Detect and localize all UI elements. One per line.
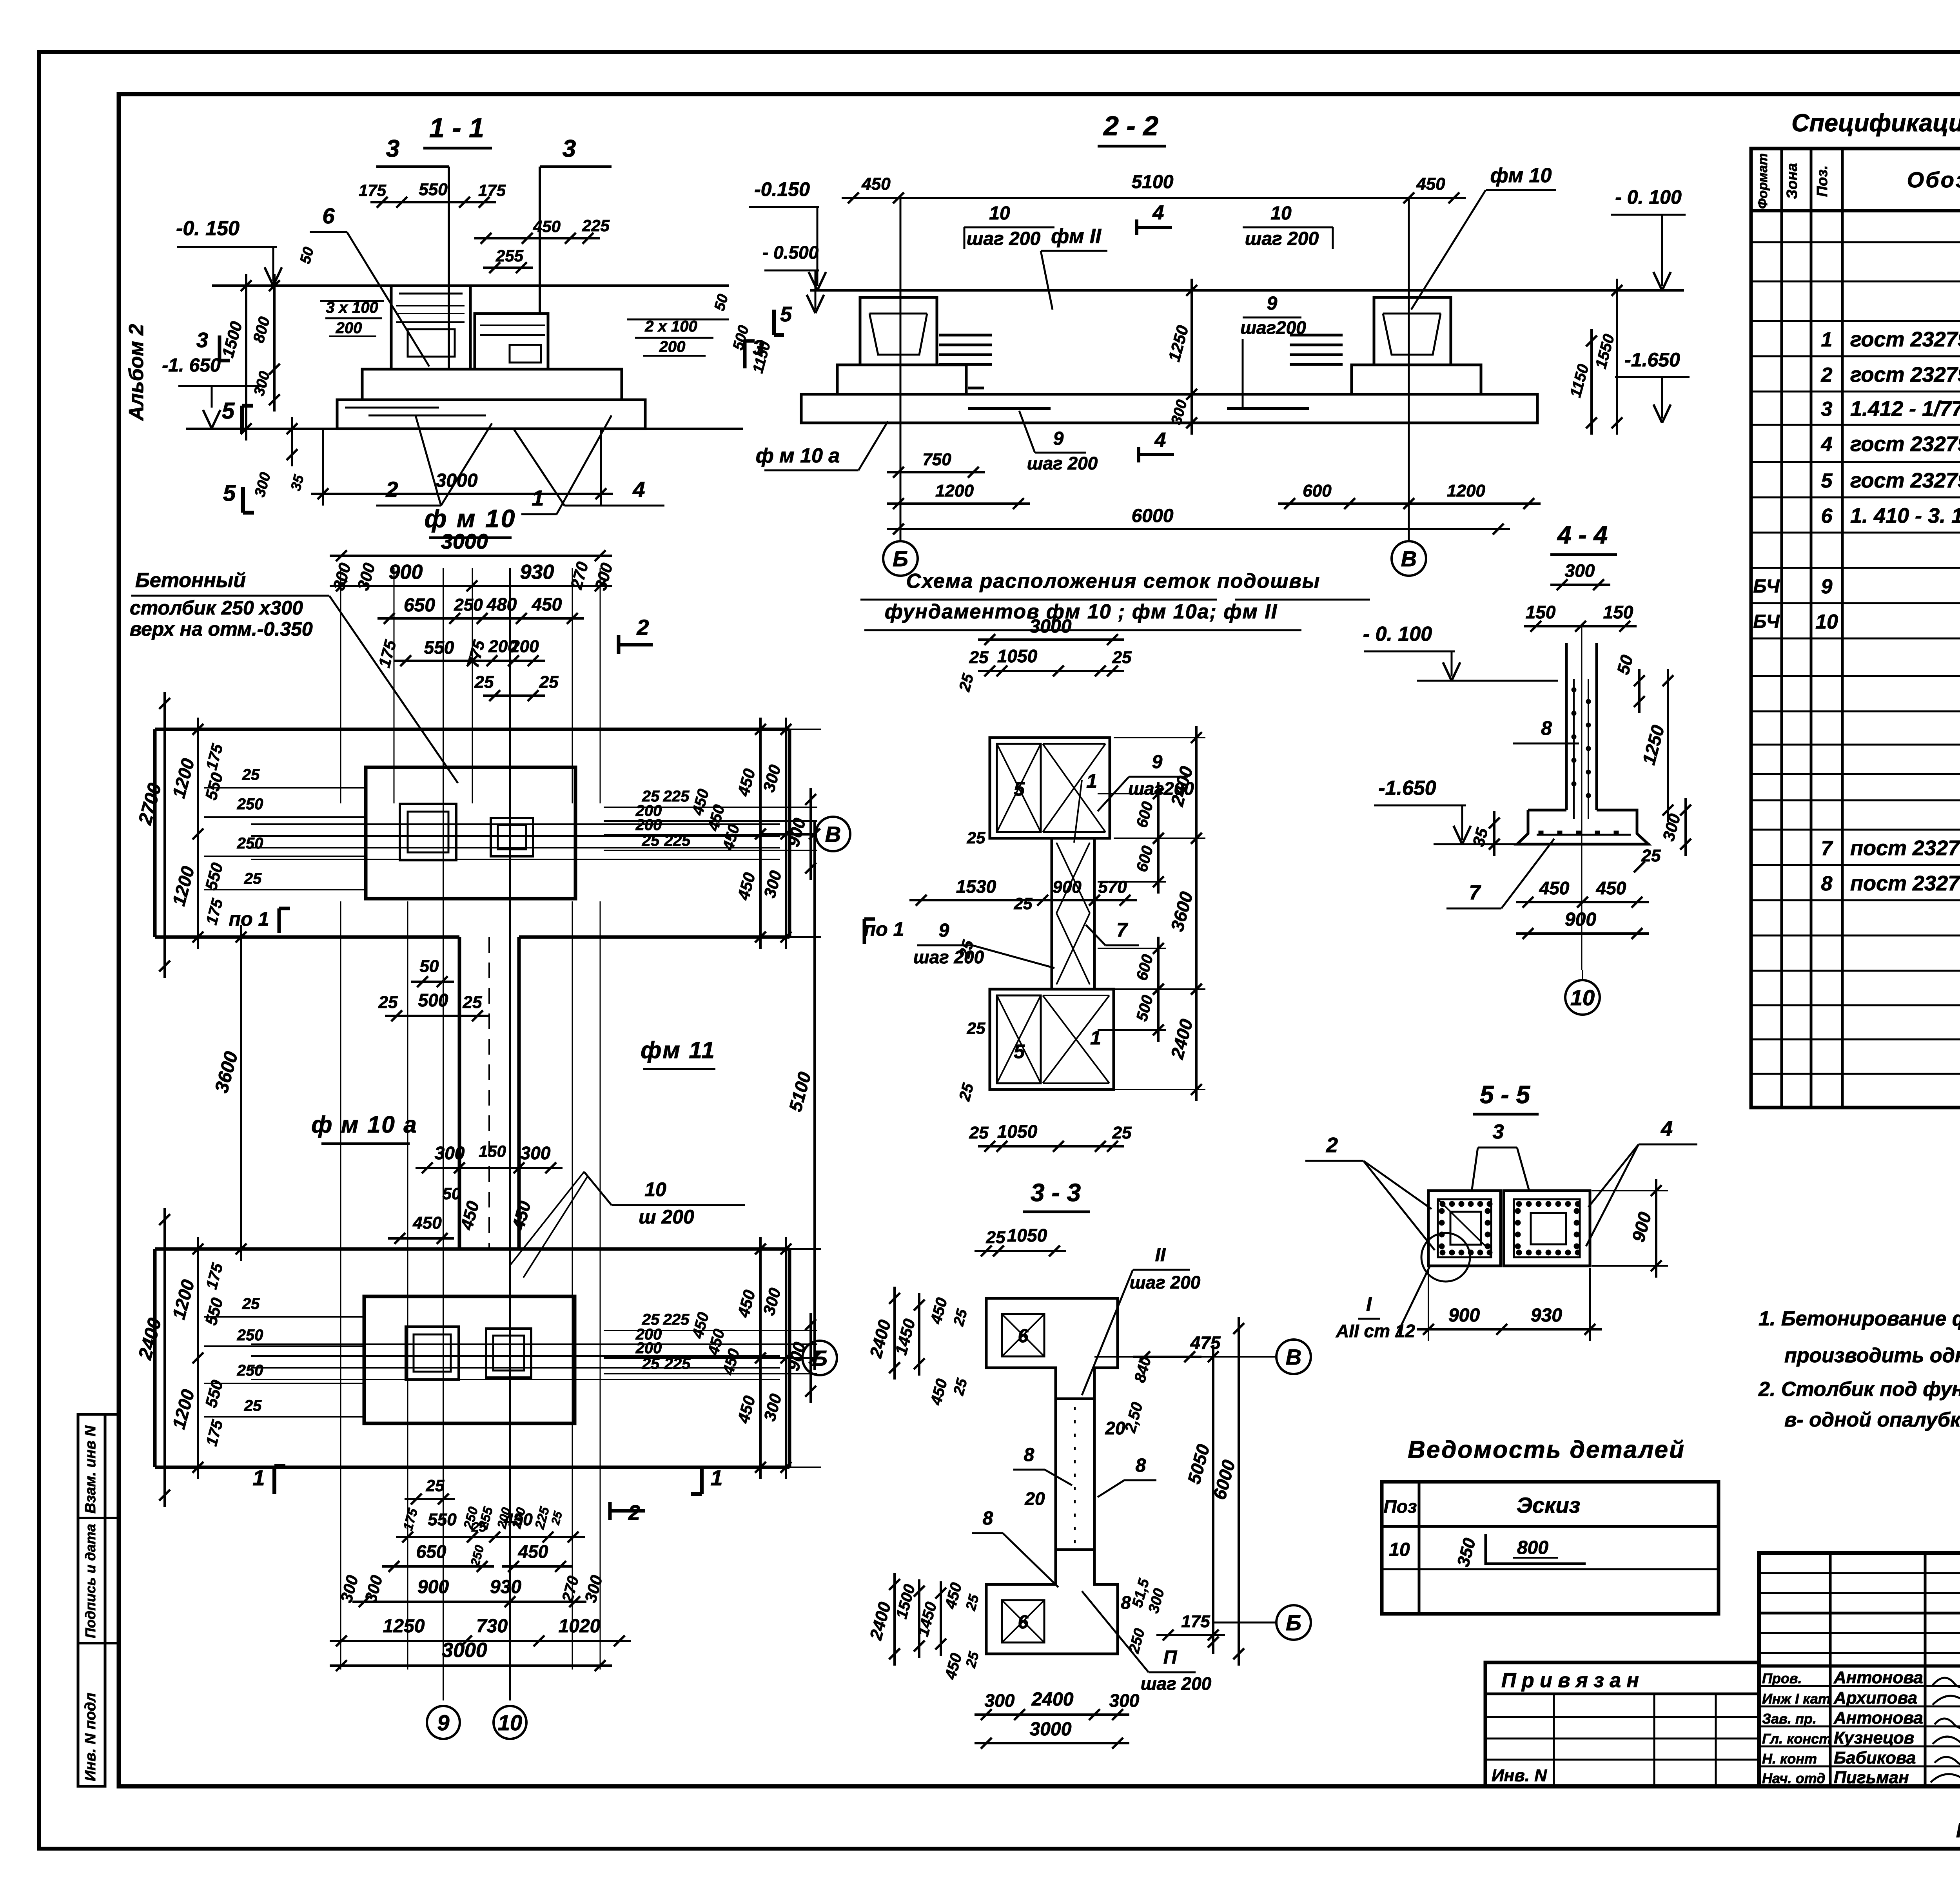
- schema dim 3000: [978, 638, 1124, 641]
- section 3-3 left dims upper: [893, 1287, 896, 1380]
- svg-text:Пигьман: Пигьман: [1834, 1768, 1909, 1787]
- svg-text:25: 25: [1112, 1123, 1132, 1142]
- svg-text:гост 23279 - 85: гост 23279 - 85: [1850, 432, 1960, 456]
- spec table grid: [1751, 149, 1960, 1108]
- svg-text:2: 2: [1821, 364, 1833, 386]
- section 2-2 dim 1200 left: [887, 502, 1030, 505]
- svg-text:250: 250: [237, 1362, 263, 1379]
- svg-text:300: 300: [1109, 1690, 1140, 1711]
- svg-text:3000: 3000: [436, 470, 478, 491]
- svg-text:3: 3: [386, 135, 399, 162]
- svg-text:25: 25: [1014, 894, 1033, 913]
- svg-text:Бетонный: Бетонный: [135, 569, 246, 592]
- title block name rows: [1759, 1685, 1960, 1687]
- svg-text:225: 225: [663, 788, 690, 805]
- svg-text:Инж I кат: Инж I кат: [1762, 1691, 1831, 1707]
- plan upper right column glass: [491, 818, 533, 856]
- svg-text:Зав. пр.: Зав. пр.: [1762, 1711, 1817, 1727]
- svg-text:8: 8: [1024, 1445, 1034, 1465]
- svg-text:25: 25: [967, 1019, 985, 1037]
- svg-text:25: 25: [969, 1123, 989, 1142]
- svg-text:В: В: [1286, 1345, 1301, 1369]
- svg-text:4: 4: [1154, 429, 1166, 451]
- section 1-1 footing slab: [337, 400, 645, 429]
- section 1-1 right pier: [475, 314, 548, 369]
- svg-text:450: 450: [1539, 878, 1570, 898]
- svg-text:П: П: [1163, 1647, 1178, 1668]
- svg-text:1: 1: [532, 486, 544, 510]
- svg-text:шаг 200: шаг 200: [1130, 1272, 1201, 1293]
- plan lower band mesh lines: [251, 1343, 780, 1345]
- svg-text:10: 10: [1570, 985, 1595, 1010]
- section 2-2 top dims 450 5100 450: [842, 197, 1466, 199]
- svg-text:-1.650: -1.650: [1624, 349, 1680, 371]
- svg-text:200: 200: [659, 338, 686, 355]
- svg-text:2400: 2400: [1031, 1689, 1074, 1710]
- svg-text:9: 9: [1152, 752, 1163, 772]
- svg-text:9: 9: [939, 920, 949, 941]
- schema dims right side: [1195, 726, 1198, 850]
- svg-text:8: 8: [1136, 1455, 1146, 1476]
- svg-text:2: 2: [1326, 1133, 1338, 1157]
- svg-text:Эскиз: Эскиз: [1517, 1493, 1581, 1517]
- svg-text:1250: 1250: [383, 1616, 425, 1637]
- svg-text:450: 450: [1596, 878, 1626, 898]
- svg-text:I: I: [1366, 1293, 1372, 1315]
- svg-text:Б: Б: [1286, 1610, 1301, 1635]
- svg-text:II: II: [1155, 1245, 1166, 1265]
- plan axis lines 9 10: [443, 568, 444, 1700]
- section 2-2 axis line V right: [1408, 198, 1410, 541]
- section 5-5 right block: [1504, 1191, 1590, 1266]
- section 2-2 dim 6000: [887, 528, 1510, 530]
- svg-text:10: 10: [989, 203, 1010, 224]
- svg-text:Б: Б: [893, 546, 908, 571]
- section 3-3 bottom block: [986, 1550, 1118, 1654]
- plan right dims lower band: [604, 1330, 817, 1331]
- svg-text:450: 450: [1416, 174, 1445, 194]
- plan long extension lines: [340, 568, 341, 803]
- section 1-1 column body: [391, 286, 470, 369]
- svg-text:Инв. N: Инв. N: [1492, 1766, 1547, 1785]
- section 1-1 mesh label 3x100 / 200: [320, 300, 384, 302]
- section 2-2 bottom slab: [801, 394, 1537, 423]
- plan axis circle V right: [760, 833, 816, 835]
- svg-text:900: 900: [1053, 877, 1082, 897]
- left margin stamp strip: [78, 1414, 105, 1786]
- svg-text:шаг 200: шаг 200: [1141, 1673, 1212, 1694]
- svg-text:25: 25: [642, 1355, 660, 1372]
- svg-text:450: 450: [412, 1213, 442, 1233]
- svg-text:БЧ: БЧ: [1753, 576, 1780, 597]
- svg-text:1200: 1200: [935, 481, 974, 500]
- svg-text:3: 3: [563, 135, 576, 162]
- svg-text:Гл. конст: Гл. конст: [1762, 1731, 1831, 1747]
- privyazan table: [1485, 1662, 1759, 1786]
- svg-text:6: 6: [322, 203, 335, 228]
- section 2-2 axis circle B: [883, 541, 918, 576]
- svg-text:Спецификация элементов монолит: Спецификация элементов монолитной констр…: [1791, 109, 1960, 137]
- svg-text:150: 150: [1526, 602, 1556, 622]
- svg-text:5: 5: [780, 303, 792, 326]
- svg-text:1: 1: [1086, 770, 1097, 792]
- svg-text:- 0. 100: - 0. 100: [1363, 623, 1432, 645]
- svg-text:25: 25: [242, 766, 260, 783]
- svg-text:пост 23279 - 85: пост 23279 - 85: [1850, 836, 1960, 860]
- svg-text:225: 225: [582, 216, 610, 235]
- svg-text:25: 25: [642, 832, 660, 849]
- svg-text:25: 25: [969, 648, 989, 667]
- section 4-4 dim 1250: [1667, 669, 1669, 822]
- section 2-2 axis line B left: [900, 198, 902, 541]
- svg-text:10: 10: [498, 1710, 522, 1735]
- svg-text:Инв. N подл: Инв. N подл: [82, 1693, 99, 1781]
- plan dim 5100 right: [813, 822, 816, 1370]
- schema upper left crossed mesh 5: [997, 744, 1041, 832]
- svg-text:150: 150: [479, 1142, 506, 1160]
- schema middle strip: [1052, 838, 1094, 989]
- plan lower left column glass: [406, 1327, 459, 1380]
- svg-text:шаг200: шаг200: [1240, 317, 1306, 338]
- svg-text:175: 175: [478, 181, 506, 199]
- section 2-2 axis circle V: [1392, 541, 1426, 576]
- svg-text:25: 25: [474, 673, 494, 692]
- svg-text:В: В: [1401, 546, 1417, 571]
- svg-text:500: 500: [418, 990, 448, 1010]
- plan lower band FM10a: [155, 1247, 789, 1251]
- svg-text:1020: 1020: [559, 1616, 601, 1637]
- plan dim row 550 200 200: [394, 660, 545, 662]
- svg-text:25: 25: [426, 1476, 445, 1495]
- svg-text:Антонова: Антонова: [1833, 1708, 1923, 1728]
- svg-text:3000: 3000: [441, 530, 488, 553]
- svg-text:570: 570: [1098, 877, 1127, 897]
- svg-text:900: 900: [1565, 909, 1596, 930]
- section 2-2 vertical dim 1250 300: [1191, 279, 1193, 435]
- section 5-5 rebar dots right: [1516, 1201, 1522, 1207]
- section 4-4 dim 300 right: [1684, 798, 1687, 856]
- section 5-5 dim 900 right: [1655, 1179, 1657, 1278]
- svg-text:Обозначение: Обозначение: [1907, 167, 1960, 192]
- svg-text:Нач. отд: Нач. отд: [1762, 1770, 1825, 1786]
- section 2-2 dim 750 left: [887, 471, 985, 473]
- svg-text:2: 2: [636, 615, 649, 640]
- svg-text:250: 250: [237, 796, 263, 813]
- svg-text:9: 9: [1053, 428, 1064, 449]
- svg-text:750: 750: [922, 450, 951, 469]
- svg-text:3 - 3: 3 - 3: [1031, 1178, 1081, 1207]
- svg-text:450: 450: [533, 217, 561, 236]
- svg-text:5: 5: [1821, 470, 1833, 492]
- svg-text:25: 25: [471, 1520, 487, 1535]
- svg-text:5: 5: [222, 398, 235, 424]
- section 3-3 bottom crossed mesh 6: [1002, 1600, 1044, 1642]
- plan axis circle 9: [427, 1706, 460, 1739]
- svg-text:3 x 100: 3 x 100: [326, 299, 378, 316]
- svg-text:столбик 250 х300: столбик 250 х300: [130, 597, 303, 619]
- section 1-1 dim row 450 225: [474, 237, 600, 239]
- section 4-4 footing: [1517, 810, 1648, 844]
- svg-text:шаг 200: шаг 200: [1027, 453, 1098, 473]
- svg-text:900: 900: [417, 1577, 449, 1597]
- section 2-2 left mesh marks: [939, 334, 992, 337]
- plan left dims upper band: [163, 692, 166, 978]
- plan left dims lower band: [163, 1208, 166, 1507]
- svg-text:3: 3: [196, 328, 208, 352]
- section 2-2 right pier: [1374, 297, 1451, 365]
- section 3-3 axis circle V: [1276, 1340, 1311, 1374]
- section 5-5 detail circle: [1421, 1233, 1470, 1282]
- svg-text:ф м 10: ф м 10: [425, 504, 517, 533]
- svg-text:6: 6: [1821, 505, 1833, 528]
- svg-text:- 0. 100: - 0. 100: [1615, 186, 1682, 208]
- svg-text:25: 25: [244, 1397, 262, 1414]
- svg-text:-0. 150: -0. 150: [176, 217, 240, 240]
- section 1-1 mesh label 2x100 / 200 right: [627, 319, 729, 321]
- svg-text:7: 7: [1469, 881, 1481, 904]
- schema dim row 1530 900 570: [909, 899, 1137, 901]
- svg-text:175: 175: [359, 181, 387, 199]
- svg-text:Схема расположения сеток п: Схема расположения сеток подошвы: [906, 570, 1321, 593]
- section 2-2 vertical dims right 1150 1550: [1590, 329, 1593, 435]
- title block upper left row lines: [1759, 1572, 1960, 1574]
- plan axis circle B right lower: [760, 1357, 802, 1359]
- section 4-4 wall: [1565, 643, 1568, 810]
- svg-text:225: 225: [663, 1311, 690, 1328]
- svg-text:10: 10: [1270, 203, 1292, 224]
- section 2-2 right step: [1352, 365, 1481, 394]
- section 2-2 left pier: [860, 297, 937, 365]
- svg-text:-1. 650: -1. 650: [162, 355, 221, 376]
- svg-text:250: 250: [237, 1327, 263, 1344]
- svg-text:5: 5: [223, 480, 236, 506]
- svg-text:9: 9: [437, 1710, 449, 1735]
- plan upper left column glass: [400, 804, 456, 860]
- svg-text:3: 3: [1821, 398, 1833, 421]
- plan lower right column glass: [486, 1329, 531, 1378]
- svg-text:производить одновременно.: производить одновременно.: [1784, 1344, 1960, 1367]
- svg-text:650: 650: [404, 595, 435, 616]
- svg-text:5 - 5: 5 - 5: [1480, 1080, 1530, 1109]
- schema upper block: [990, 738, 1110, 838]
- svg-text:8: 8: [983, 1508, 993, 1529]
- svg-text:730: 730: [476, 1616, 508, 1637]
- svg-text:550: 550: [424, 637, 454, 658]
- svg-text:по 1: по 1: [229, 908, 269, 930]
- svg-text:800: 800: [1517, 1537, 1548, 1558]
- svg-text:гост 23279 - 85: гост 23279 - 85: [1850, 469, 1960, 492]
- svg-text:480: 480: [486, 594, 517, 615]
- svg-text:1: 1: [252, 1465, 265, 1490]
- svg-text:ф м 10 а: ф м 10 а: [756, 444, 840, 467]
- svg-text:Взам. инв N: Взам. инв N: [82, 1425, 99, 1514]
- svg-text:2 - 2: 2 - 2: [1103, 111, 1158, 141]
- svg-text:Пров.: Пров.: [1762, 1670, 1802, 1686]
- svg-text:1530: 1530: [956, 876, 996, 897]
- svg-text:1: 1: [1821, 328, 1833, 351]
- svg-text:Антонова: Антонова: [1833, 1668, 1923, 1687]
- section 2-2 left step: [837, 365, 966, 394]
- svg-text:1050: 1050: [997, 1121, 1038, 1142]
- svg-text:верх на отм.-0.350: верх на отм.-0.350: [130, 618, 313, 640]
- section 5-5 left block: [1428, 1191, 1501, 1266]
- svg-text:25: 25: [986, 1228, 1005, 1247]
- section 3-3 axis circle B: [1213, 1622, 1276, 1624]
- section 5-5 rebar dots left: [1440, 1201, 1445, 1207]
- svg-text:175: 175: [1181, 1612, 1210, 1631]
- svg-text:2. Столбик под фундамент: 2. Столбик под фундаментную Балку выполн…: [1758, 1378, 1960, 1401]
- svg-text:2: 2: [628, 1501, 640, 1525]
- svg-text:Кузнецов: Кузнецов: [1834, 1728, 1914, 1748]
- section 1-1 left vertical dims: [245, 274, 247, 441]
- svg-text:фундаментов фм 10 ; фм 10а;: фундаментов фм 10 ; фм 10а; фм II: [885, 600, 1278, 623]
- svg-text:250: 250: [454, 595, 483, 615]
- svg-text:5: 5: [1014, 1041, 1025, 1062]
- svg-text:Копировал Родлевская: Копировал Родлевская: [1956, 1819, 1960, 1842]
- section 4-4 footing rebar dots: [1537, 834, 1631, 836]
- svg-text:4 - 4: 4 - 4: [1557, 521, 1608, 549]
- plan vertical strip FM11 wall: [458, 937, 461, 1249]
- svg-text:Подпись и дата: Подпись и дата: [82, 1524, 98, 1638]
- section 2-2 slab mesh marks: [968, 407, 1051, 410]
- svg-text:Поз: Поз: [1384, 1496, 1417, 1517]
- svg-text:Зона: Зона: [1784, 163, 1800, 199]
- plan dim 3600 left: [240, 925, 242, 1261]
- section 4-4 wall rebar: [1573, 679, 1575, 819]
- svg-text:20: 20: [1024, 1488, 1045, 1509]
- plan right dims upper band: [604, 807, 817, 808]
- svg-text:-0.150: -0.150: [754, 178, 810, 200]
- svg-text:25: 25: [967, 828, 985, 847]
- svg-text:9: 9: [1267, 293, 1278, 314]
- svg-text:АII ст 12: АII ст 12: [1336, 1321, 1415, 1341]
- svg-text:225: 225: [664, 1355, 691, 1372]
- svg-text:в- одной опалубке с: в- одной опалубке с фундаментом фм 10 .: [1784, 1409, 1960, 1431]
- svg-text:1: 1: [710, 1465, 722, 1490]
- svg-text:шаг 200: шаг 200: [967, 228, 1041, 249]
- svg-text:650: 650: [416, 1541, 446, 1562]
- svg-text:7: 7: [1821, 837, 1833, 860]
- svg-text:7: 7: [1116, 919, 1128, 941]
- section 3-3 neck: [1054, 1399, 1057, 1550]
- schema upper right crossed mesh 1: [1043, 744, 1105, 832]
- svg-text:200: 200: [635, 1340, 662, 1357]
- svg-text:25: 25: [378, 993, 398, 1012]
- svg-text:гост 23279 - 85: гост 23279 - 85: [1850, 363, 1960, 386]
- svg-text:по 1: по 1: [864, 918, 904, 940]
- svg-text:225: 225: [664, 832, 691, 849]
- svg-text:200: 200: [336, 319, 362, 337]
- section 4-4 axis circle 10: [1565, 980, 1600, 1015]
- svg-text:1 - 1: 1 - 1: [429, 112, 484, 143]
- svg-text:930: 930: [490, 1577, 521, 1597]
- svg-text:50: 50: [443, 1184, 461, 1203]
- svg-text:1200: 1200: [1447, 481, 1485, 500]
- svg-text:Формат: Формат: [1755, 153, 1770, 209]
- plan upper footing rect: [366, 767, 575, 899]
- svg-text:930: 930: [1531, 1305, 1562, 1326]
- svg-text:гост 23279- 85: гост 23279- 85: [1850, 328, 1960, 351]
- svg-text:пост 23279 - 85: пост 23279 - 85: [1850, 872, 1960, 895]
- svg-text:4: 4: [1152, 201, 1164, 224]
- svg-text:В: В: [825, 822, 841, 847]
- section 2-2 dims 600 1200 right: [1278, 502, 1541, 505]
- svg-text:1. 410 - 3. 1 - 12: 1. 410 - 3. 1 - 12: [1850, 504, 1960, 528]
- svg-text:25: 25: [1112, 648, 1132, 667]
- svg-text:3000: 3000: [1030, 1719, 1072, 1740]
- svg-text:2 x 100: 2 x 100: [644, 318, 697, 335]
- svg-text:600: 600: [1303, 481, 1332, 500]
- svg-text:Ведомость деталей: Ведомость деталей: [1408, 1436, 1685, 1463]
- plan dim row 900 930 top: [330, 585, 612, 587]
- svg-text:3: 3: [1493, 1120, 1504, 1143]
- svg-text:200: 200: [510, 637, 539, 656]
- svg-text:1.412 - 1/77 - В.3 - 020: 1.412 - 1/77 - В.3 - 020: [1850, 397, 1960, 421]
- svg-text:10: 10: [1815, 611, 1838, 633]
- svg-text:200: 200: [635, 816, 662, 834]
- svg-text:300: 300: [521, 1143, 551, 1163]
- svg-text:2: 2: [385, 477, 398, 502]
- svg-text:Поз.: Поз.: [1814, 165, 1831, 197]
- vedomost detaley table: [1382, 1482, 1719, 1614]
- svg-text:9: 9: [1821, 575, 1833, 598]
- svg-text:25: 25: [539, 673, 559, 692]
- svg-text:10: 10: [1389, 1539, 1410, 1560]
- schema lower left crossed mesh 5: [997, 995, 1041, 1083]
- svg-text:25: 25: [244, 870, 262, 887]
- plan upper band mesh lines: [251, 823, 780, 825]
- plan axis circle 10: [494, 1706, 526, 1739]
- svg-text:900: 900: [1448, 1305, 1480, 1326]
- svg-text:1. Бетонирование фундаментов: 1. Бетонирование фундаментов фм 10 ; 10 …: [1759, 1307, 1960, 1330]
- svg-text:- 0.500: - 0.500: [762, 242, 819, 263]
- plan dim row 650 250 480 450: [377, 617, 584, 620]
- svg-text:3000: 3000: [442, 1639, 487, 1662]
- svg-text:250: 250: [237, 835, 263, 852]
- svg-text:475: 475: [1190, 1332, 1221, 1353]
- svg-text:шаг 200: шаг 200: [1245, 228, 1319, 249]
- section 1-1 ground top line: [212, 285, 729, 287]
- svg-text:Бабикова: Бабикова: [1834, 1748, 1916, 1767]
- svg-text:Архипова: Архипова: [1833, 1688, 1917, 1708]
- svg-text:8: 8: [1821, 872, 1833, 895]
- svg-text:6000: 6000: [1132, 506, 1174, 526]
- svg-text:300: 300: [1565, 560, 1595, 581]
- section 3-3 left dims lower: [893, 1573, 896, 1666]
- schema lower right crossed mesh 1: [1043, 995, 1109, 1083]
- svg-text:300: 300: [435, 1143, 465, 1163]
- svg-text:Альбом 2: Альбом 2: [125, 324, 148, 422]
- svg-text:ш 200: ш 200: [639, 1206, 694, 1228]
- svg-text:8: 8: [1541, 717, 1552, 739]
- plan lower footing rect: [364, 1296, 575, 1423]
- plan upper band FM10: [155, 728, 789, 731]
- svg-text:Н. конт: Н. конт: [1762, 1751, 1817, 1767]
- svg-text:1050: 1050: [1007, 1225, 1047, 1245]
- svg-text:550: 550: [428, 1510, 457, 1529]
- schema right extension lines: [1114, 737, 1205, 738]
- svg-text:300: 300: [985, 1690, 1015, 1711]
- svg-text:фм II: фм II: [1051, 225, 1102, 248]
- svg-text:550: 550: [419, 180, 448, 199]
- svg-text:4: 4: [632, 477, 645, 502]
- schema lower block: [990, 989, 1114, 1089]
- svg-text:930: 930: [520, 561, 554, 584]
- title block frame: [1759, 1553, 1960, 1786]
- section 1-1 footing step: [362, 369, 622, 400]
- svg-text:фм 10: фм 10: [1490, 164, 1552, 187]
- svg-text:БЧ: БЧ: [1753, 611, 1780, 632]
